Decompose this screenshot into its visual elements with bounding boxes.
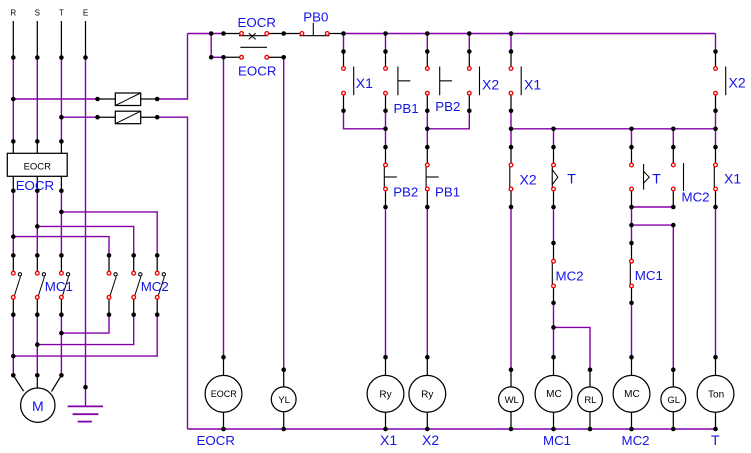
terminal pins PB0: [300, 32, 329, 36]
terminal pins power poles: [11, 271, 159, 299]
terminal T: [60, 21, 62, 58]
wire R below EOCR block: [12, 191, 14, 256]
svg-text:RL: RL: [584, 395, 596, 406]
wire PB1 to PB2 vertical: [385, 111, 387, 147]
svg-text:PB1: PB1: [394, 101, 419, 116]
junction dots power section: [11, 55, 160, 389]
svg-text:EOCR: EOCR: [238, 64, 276, 79]
svg-text:T: T: [652, 171, 661, 187]
svg-text:T: T: [711, 432, 720, 448]
wire X2 NC to WL lamp: [510, 207, 512, 370]
wire EOCR coil branch: [223, 57, 225, 357]
wire MC1 pole outputs to motor: [13, 315, 61, 376]
wire MC2 NC to MC1 coil: [553, 303, 555, 357]
contactor MC1 pole 2: [37, 255, 45, 314]
wire branch to RL lamp: [554, 327, 591, 369]
contact EOCR trip NC: [224, 33, 284, 39]
pushbutton PB1 NO: [386, 52, 411, 111]
contact X1 NO (first rung): [344, 52, 354, 111]
svg-text:X2: X2: [482, 77, 499, 93]
wire X1 to distribution node: [510, 111, 512, 147]
wire MC2 pole 2 output merge: [37, 315, 133, 345]
contact X2 NO (seal-in): [469, 52, 479, 111]
wire control top rail: [188, 33, 716, 35]
svg-text:MC2: MC2: [682, 190, 710, 205]
wire X1 NC to timer coil: [715, 207, 717, 357]
svg-text:EOCR: EOCR: [238, 15, 276, 30]
wire junction row 2nd link: [632, 207, 674, 370]
svg-text:PB1: PB1: [435, 185, 460, 200]
wire fuse F1 feed from R: [13, 98, 97, 100]
wire fuse F1 output to control top rail: [157, 34, 187, 100]
terminal S: [36, 21, 38, 58]
motor M: [13, 375, 61, 422]
wire rail drop to X1 interlock rung: [510, 34, 512, 52]
contact X2 NO (timer rung): [716, 52, 726, 111]
pushbutton PB2 NC: [384, 147, 397, 207]
wire X2 to X1 NC: [715, 111, 717, 147]
wire PB2 NC to relay coil X1: [385, 207, 387, 357]
wire rail drop to PB1: [385, 34, 387, 52]
wire MC2 pole 1 output merge: [61, 315, 109, 333]
svg-text:PB2: PB2: [435, 99, 460, 114]
svg-text:WL: WL: [505, 395, 519, 406]
fuse F2: [98, 111, 158, 124]
pushbutton PB2 NO: [427, 52, 452, 111]
svg-text:MC: MC: [624, 389, 640, 400]
wire X2 contact link to PB1 rung: [427, 111, 469, 129]
wire drop to timer contact T rung MC1: [553, 129, 555, 147]
svg-text:X2: X2: [729, 75, 746, 91]
contact X1 NC (timer rung): [714, 147, 715, 207]
contact T timer NO: [632, 147, 650, 207]
pushbutton PB0 NC: [284, 23, 344, 36]
svg-text:MC2: MC2: [556, 269, 584, 284]
contact X2 NC interlock: [510, 147, 511, 207]
svg-text:X1: X1: [724, 171, 741, 187]
contact MC2 NC interlock: [552, 243, 553, 303]
contact MC2 NO aux: [673, 147, 683, 207]
wire MC1 NC to MC2 coil: [631, 303, 633, 357]
wire PB1 NC to relay coil X2: [426, 207, 428, 357]
contact EOCR NO: [224, 47, 284, 57]
contact MC1 NC interlock: [630, 243, 631, 303]
svg-text:PB2: PB2: [393, 185, 418, 200]
svg-text:YL: YL: [278, 395, 290, 406]
terminal R: [12, 21, 14, 58]
lamp WL: [499, 370, 524, 429]
wire R crossover to MC2 pole 1: [13, 237, 109, 256]
svg-text:EOCR: EOCR: [211, 389, 238, 399]
wire T crossover to MC2 pole 3: [61, 212, 157, 256]
svg-text:S: S: [35, 8, 40, 17]
svg-text:EOCR: EOCR: [24, 161, 52, 172]
wire MC2 pole 3 output merge: [13, 315, 157, 356]
svg-text:MC1: MC1: [45, 279, 73, 294]
terminal pins EOCR contacts: [240, 32, 269, 60]
wire rail drop to X1 contact: [343, 34, 345, 52]
wire X1 contact to PB1 rung link: [344, 111, 386, 129]
svg-text:X2: X2: [422, 432, 439, 448]
svg-text:X2: X2: [520, 172, 537, 188]
svg-text:Ton: Ton: [708, 389, 724, 400]
wire E earth vertical: [85, 58, 87, 388]
lamp RL: [578, 370, 603, 429]
svg-text:MC2: MC2: [622, 433, 650, 448]
svg-text:Ry: Ry: [379, 389, 391, 400]
wire T phase vertical: [60, 58, 62, 142]
wire R phase vertical: [12, 58, 14, 142]
wire PB2 to PB1 vertical: [426, 111, 428, 147]
svg-text:MC: MC: [546, 389, 562, 400]
wire S phase vertical: [36, 58, 38, 142]
contactor MC2 pole 2: [134, 255, 142, 314]
svg-text:X1: X1: [380, 432, 397, 448]
wire rail to EOCR NO row: [210, 34, 212, 58]
junction dots control section: [209, 31, 718, 431]
wire S below EOCR block: [36, 191, 38, 256]
svg-text:GL: GL: [667, 395, 680, 406]
relay coil EOCR: [205, 357, 242, 429]
wire distribution rail y129: [511, 128, 716, 130]
svg-text:T: T: [59, 8, 64, 17]
contactor coil MC2: [613, 357, 650, 429]
lamp YL: [271, 370, 296, 429]
svg-text:T: T: [567, 171, 576, 187]
pushbutton PB1 NC: [426, 147, 439, 207]
wire control bottom rail: [188, 428, 716, 430]
wire rail drop to PB2: [426, 34, 428, 52]
wire rail corner drop to X2 contact right: [715, 34, 717, 52]
fuse F1: [98, 93, 158, 106]
wire fuse F2 output to left control rail: [157, 117, 187, 429]
wire T parallel MC2 junction row: [632, 206, 674, 208]
relay coil Ry X1: [367, 357, 404, 429]
contact X1 NO (lamp rung): [511, 52, 521, 111]
contact T timer NC: [552, 147, 558, 207]
svg-text:EOCR: EOCR: [197, 433, 235, 448]
svg-text:MC1: MC1: [543, 433, 571, 448]
contactor MC1 pole 3: [61, 255, 69, 314]
wire rail drop to X2 contact: [468, 34, 470, 52]
svg-text:X1: X1: [524, 77, 541, 93]
svg-text:MC1: MC1: [635, 268, 663, 283]
svg-text:EOCR: EOCR: [16, 178, 54, 193]
svg-text:PB0: PB0: [303, 9, 328, 24]
wire down to MC1 interlock: [631, 225, 633, 243]
contactor MC1 pole 1: [13, 255, 21, 314]
wire T contact to MC2 interlock: [553, 207, 555, 243]
relay coil Ry X2: [409, 357, 446, 429]
svg-text:M: M: [32, 398, 44, 414]
contactor MC2 pole 3: [157, 255, 165, 314]
svg-text:MC2: MC2: [141, 279, 169, 294]
terminal E: [85, 21, 87, 58]
wire drop to timer contact T rung MC2: [631, 129, 633, 147]
svg-text:E: E: [83, 8, 88, 17]
wire drop to MC2 aux contact: [672, 129, 674, 147]
ground symbol: [68, 387, 103, 421]
lamp GL: [661, 370, 686, 429]
terminal pins control contacts: [342, 67, 718, 288]
wire EOCR NO row left: [211, 56, 223, 58]
wire T below EOCR block: [60, 191, 62, 256]
svg-text:X1: X1: [356, 75, 373, 91]
timer coil Ton: [697, 357, 734, 429]
contactor coil MC1: [535, 357, 572, 429]
wire YL lamp branch: [283, 57, 285, 369]
svg-text:Ry: Ry: [421, 389, 433, 400]
contactor MC2 pole 1: [109, 255, 117, 314]
wire fuse F2 feed from T: [61, 116, 97, 118]
wire S crossover to MC2 pole 2: [37, 226, 133, 255]
EOCR overcurrent relay block: [7, 141, 67, 190]
svg-text:R: R: [10, 8, 16, 17]
